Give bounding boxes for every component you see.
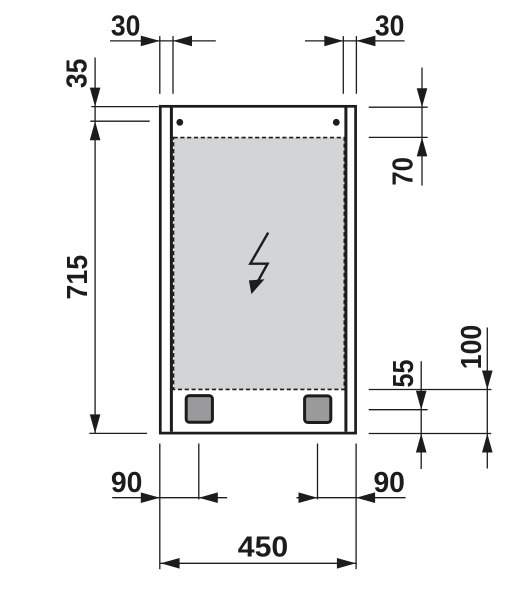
dim 55 right: arrow up xyxy=(416,434,427,453)
lightning bolt symbol xyxy=(249,233,268,295)
dim 450 bottom: arrow pointing left xyxy=(161,558,180,569)
extension line socket center right xyxy=(369,409,428,411)
dim 715 left: arrow down at bottom xyxy=(90,414,101,433)
dim 100 right: arrow up xyxy=(482,434,493,453)
extension line top edge right xyxy=(369,106,428,108)
svg-text:70: 70 xyxy=(387,157,419,186)
extension line bottom edge left xyxy=(89,432,147,434)
mounting hole right xyxy=(333,119,340,126)
svg-text:90: 90 xyxy=(111,467,143,499)
svg-text:450: 450 xyxy=(238,532,289,564)
dim 90 bottom-right: arrow left xyxy=(356,492,375,503)
bottom extension line: right socket center xyxy=(317,444,319,500)
extension line top edge left xyxy=(91,106,158,108)
extension line glass top right xyxy=(369,136,428,138)
dim 90 bottom-right: arrow right xyxy=(299,492,318,503)
dim 30 top-right: extension line inner xyxy=(342,36,344,94)
svg-text:90: 90 xyxy=(373,467,405,499)
dim 55 right: arrow down xyxy=(416,391,427,410)
dim 55 right: dimension line xyxy=(420,361,422,469)
cabinet outer body xyxy=(160,106,355,433)
svg-text:55: 55 xyxy=(388,360,420,388)
dim 450 bottom: dimension line xyxy=(160,562,355,564)
bottom extension line: left outer edge xyxy=(159,444,161,570)
bottom extension line: left socket center xyxy=(198,444,200,500)
extension line hole level left xyxy=(90,120,149,122)
dim 90 bottom-left: arrow right xyxy=(141,492,160,503)
dim 100 right: arrow down xyxy=(482,371,493,390)
dim 70 right: arrow up xyxy=(417,137,428,156)
cabinet inner right side line xyxy=(344,107,347,431)
dim 30 top-left: arrow left xyxy=(173,36,192,47)
cabinet inner left side line xyxy=(170,107,173,431)
bottom extension line: right outer edge xyxy=(355,444,357,570)
dim 30 top-right: dimension line xyxy=(305,40,405,42)
dim 70 right: dimension line xyxy=(421,68,423,186)
svg-text:30: 30 xyxy=(111,10,141,42)
mirror glass dashed gray area xyxy=(174,138,345,390)
dim 70 right: arrow down xyxy=(417,88,428,107)
extension line glass bottom right xyxy=(369,389,492,391)
svg-text:35: 35 xyxy=(62,59,94,89)
socket left xyxy=(186,396,212,423)
dim 35 left: arrow down at top edge xyxy=(90,88,101,107)
dim 30 top-right: extension line outer xyxy=(355,36,357,94)
svg-text:715: 715 xyxy=(62,255,94,300)
dim 90 bottom-left: arrow left xyxy=(199,492,218,503)
dim 30 top-right: arrow left xyxy=(356,36,375,47)
dim 30 top-left: dimension line xyxy=(110,40,216,42)
dim 90 bottom-left: dimension line xyxy=(112,497,227,499)
dim 90 bottom-right: dimension line xyxy=(296,497,405,499)
dim 30 top-left: extension line inner xyxy=(172,36,174,94)
dim 30 top-left: extension line outer xyxy=(159,36,161,94)
dim 30 top-left: arrow right xyxy=(141,36,160,47)
mounting hole left xyxy=(176,119,183,126)
dim 30 top-right: arrow right xyxy=(324,36,343,47)
svg-text:100: 100 xyxy=(456,325,488,370)
socket right xyxy=(305,396,331,423)
extension line bottom edge right xyxy=(369,433,491,435)
dim 100 right: dimension line xyxy=(486,328,488,469)
dim 450 bottom: arrow pointing right xyxy=(337,558,356,569)
dim 715 left: arrow up at hole line xyxy=(90,121,101,140)
dim 35/715 left: shared dimension line xyxy=(94,58,96,434)
svg-text:30: 30 xyxy=(375,10,405,42)
